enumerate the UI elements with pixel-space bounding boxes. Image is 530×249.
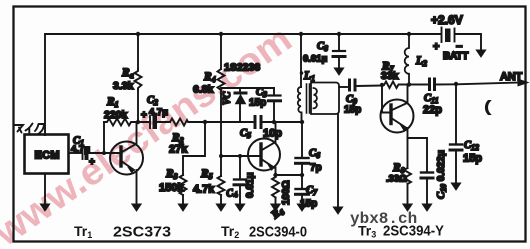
capacitor C4 0.01u [234, 178, 246, 180]
wire Tr3 base drop [382, 85, 389, 113]
resistor R1 220k [104, 119, 137, 126]
wire battery to ground corner [455, 34, 481, 51]
wire C6 to junction [301, 165, 303, 189]
wire R8 to ground [407, 184, 409, 205]
capacitor C9 15p [348, 80, 351, 90]
svg-text:15p: 15p [249, 98, 266, 109]
ground (below C7) [297, 204, 306, 211]
wire emitter to C6/C7 junction [276, 174, 303, 176]
svg-text:R5: R5 [200, 168, 213, 181]
varactor VC 1S2236 [235, 92, 246, 95]
wire Tr2 emitter down [275, 168, 277, 178]
svg-text:33k: 33k [381, 70, 399, 82]
node C12 tap [454, 82, 458, 86]
resistor R4 6.8k vertical [218, 69, 225, 90]
wire rail to L1 [300, 34, 302, 87]
ANT arrowhead [518, 79, 528, 86]
svg-text:C2: C2 [147, 95, 158, 107]
capacitor C1 4.7u electrolytic [82, 147, 84, 159]
svg-text:BATT: BATT [443, 51, 468, 62]
ground (L1 shield) [333, 207, 342, 214]
wire Tr2 collector up [275, 122, 277, 143]
svg-text:0.01μ: 0.01μ [303, 54, 327, 65]
wire C12 drop [455, 84, 457, 144]
wire audio branch down to R3 [183, 122, 205, 175]
svg-text:100Ω: 100Ω [281, 180, 292, 205]
svg-text:VC: VC [222, 91, 233, 105]
node L1 top small [300, 71, 304, 75]
resistor R7 33k horizontal [382, 82, 409, 89]
L1 core lines [307, 84, 310, 113]
capacitor C5 10p series [254, 117, 257, 128]
transistor Q Tr2 2SC394-O [248, 139, 280, 171]
svg-text:+: + [89, 157, 95, 168]
svg-text:1S2236: 1S2236 [224, 62, 260, 74]
svg-text:C4: C4 [225, 187, 238, 201]
wire R4 to R5 column [220, 90, 222, 176]
svg-text:27k: 27k [169, 144, 188, 156]
node tank line to C6 column [300, 120, 304, 124]
ground (below R6) [271, 204, 280, 211]
svg-text:0.01μ: 0.01μ [245, 172, 256, 198]
ground (below C4) [235, 204, 244, 211]
node R2 output [203, 120, 207, 124]
node C6/C7 junction [300, 173, 304, 177]
svg-text:15p: 15p [300, 199, 317, 210]
wire Tr3 emitter down to R8 [407, 128, 409, 168]
svg-text:ANT: ANT [500, 71, 522, 83]
node C3 bottom [272, 120, 276, 124]
wire R5 to ground [220, 195, 222, 205]
svg-text:R1: R1 [106, 96, 119, 109]
capacitor C10 0.022u [421, 171, 433, 173]
inductor L2 [405, 34, 409, 85]
capacitor C8 0.01u [333, 50, 345, 52]
inductor L1 primary winding [298, 87, 301, 113]
wire C7 to ground [301, 196, 303, 206]
L1 shield box [311, 83, 339, 115]
capacitor C2 4.7u electrolytic [149, 116, 151, 128]
node R1 bias junction [102, 151, 106, 155]
node L2 bottom junction [407, 82, 411, 86]
node base wire start [219, 154, 223, 158]
svg-text:R3: R3 [165, 168, 178, 181]
svg-text:(: ( [485, 98, 490, 114]
svg-text:6.8k: 6.8k [193, 84, 214, 96]
wire bias stub to C3 [240, 87, 274, 89]
node R4 top rail junction [219, 32, 223, 36]
wire Tr1 emitter down [136, 170, 138, 205]
wire C8 to ground [338, 58, 340, 69]
svg-text:22p: 22p [423, 104, 442, 116]
wire Tr1 collector up [136, 122, 138, 145]
wire emitter branch to C10 [408, 138, 428, 172]
svg-text:4.7k: 4.7k [193, 184, 215, 196]
node emitter junction [273, 173, 277, 177]
wire rail to R4 [220, 34, 222, 69]
ECM box [25, 135, 69, 174]
resistor R5 4.7k vertical [218, 176, 225, 195]
svg-text:3.3k: 3.3k [113, 80, 134, 92]
svg-text:C6: C6 [309, 148, 320, 160]
wire C1 to Tr1 base [89, 152, 119, 154]
wire Tr2 base [221, 155, 259, 157]
resistor R3 150k vertical [180, 175, 187, 195]
capacitor C6 7p [296, 157, 309, 159]
node C4 tap [238, 154, 242, 158]
wire R3 to ground [182, 195, 184, 205]
resistor R2 27k [170, 119, 240, 126]
svg-text:C12: C12 [464, 140, 479, 152]
capacitor C7 15p [296, 188, 309, 190]
wire top supply rail [45, 34, 441, 135]
inductor L1 secondary bumps [314, 88, 317, 108]
wire C9 to Tr3 base node [357, 85, 382, 88]
ground (battery) [476, 50, 485, 57]
svg-text:+: + [141, 110, 147, 121]
wire R7 to C11 [409, 84, 427, 86]
resistor R8 .33ohm vertical [404, 168, 411, 184]
node Ra top rail junction [136, 32, 140, 36]
svg-text:.33Ω: .33Ω [386, 174, 407, 185]
wire R1 left leg down [103, 122, 105, 153]
resistor Ra 3.3k vertical [135, 69, 142, 90]
svg-text:150k: 150k [159, 182, 184, 194]
ground (below ECM) [40, 204, 49, 211]
wire C6 column upper [301, 122, 303, 157]
svg-text:C7: C7 [306, 185, 318, 197]
capacitor C3 15p [269, 94, 281, 96]
node L1 rail junction [299, 32, 303, 36]
svg-text:4.7μ: 4.7μ [71, 144, 90, 155]
svg-text:2SC394-0: 2SC394-0 [249, 224, 307, 241]
svg-text:L2: L2 [415, 55, 427, 68]
wire Tr3 collector up [407, 85, 409, 104]
svg-text:C10 0.022μ: C10 0.022μ [436, 150, 448, 199]
transistor Q Tr1 2SC373 [110, 142, 143, 175]
capacitor C11 22p [428, 79, 431, 90]
wire C12 to ground [455, 151, 457, 184]
wire C11 to ANT [436, 83, 521, 85]
svg-text:+2.6V: +2.6V [431, 13, 463, 27]
ground (below R8) [403, 204, 412, 211]
wire L1 to C9 [339, 86, 347, 88]
svg-text:ECM: ECM [35, 150, 60, 162]
node Tr1 collector junction [136, 120, 140, 124]
svg-text:15p: 15p [463, 153, 482, 165]
svg-text:Tr1: Tr1 [74, 223, 92, 240]
svg-text:L1: L1 [303, 70, 315, 83]
svg-text:+: + [433, 41, 439, 53]
svg-text:Ra: Ra [121, 67, 134, 80]
wire C10 to ground [426, 179, 428, 205]
ground (below Tr1) [132, 204, 141, 211]
ground (below C12) [451, 183, 460, 190]
transistor Q Tr3 2SC394-Y [381, 100, 414, 133]
svg-text:4.7μ: 4.7μ [149, 107, 168, 118]
resistor R6 100ohm vertical [272, 177, 279, 198]
wire ECM ground stem [44, 174, 46, 205]
wire rail to C8 [338, 34, 340, 50]
wire L1 bottom to tank [301, 113, 303, 123]
node L2 top rail junction [407, 32, 411, 36]
svg-text:15p: 15p [344, 105, 361, 116]
node Tr3 base junction [380, 83, 384, 87]
svg-text:Tr2: Tr2 [221, 223, 239, 240]
svg-text:ybx8.ch: ybx8.ch [350, 210, 417, 228]
wire rail to Ra [137, 34, 139, 69]
ground (below R5) [216, 204, 225, 211]
battery BATT plates [441, 28, 443, 43]
ground (below C8) [334, 68, 343, 75]
svg-text:C8: C8 [317, 41, 328, 53]
capacitor C12 15p [450, 143, 462, 145]
wire varactor bias stub [221, 88, 274, 122]
wire ECM output to C1 [69, 152, 81, 154]
svg-text:C5: C5 [240, 128, 251, 140]
wire Ra to node [137, 90, 139, 122]
svg-text:220k: 220k [104, 109, 128, 121]
label mic katakana [14, 124, 44, 135]
ground (below R3) [178, 204, 187, 211]
wire L1 shield to ground [337, 114, 339, 208]
svg-text:7p: 7p [310, 163, 322, 174]
wire C4 drop [239, 156, 241, 179]
wire R6 to ground [275, 198, 277, 206]
ground (below C10) [422, 204, 431, 211]
node C8 rail junction [337, 32, 341, 36]
svg-text:2SC373: 2SC373 [113, 224, 171, 241]
